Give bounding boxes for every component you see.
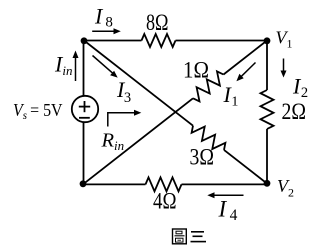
resistor R4 4-ohm: [146, 177, 182, 191]
arrow I8: [92, 28, 121, 34]
diagonal wire R3 to V2: [224, 150, 267, 184]
arrow Iin: [73, 51, 79, 82]
svg-text:4Ω: 4Ω: [153, 189, 177, 214]
svg-text:I3: I3: [116, 77, 131, 106]
node bottom-left junction: [80, 180, 87, 187]
svg-text:1Ω: 1Ω: [183, 58, 209, 83]
arrow I2: [281, 59, 287, 78]
wire bottom-left segment: [83, 183, 146, 185]
arrow Rin looking-in: [108, 110, 142, 127]
wire top-left segment: [84, 40, 142, 42]
svg-text:I2: I2: [292, 74, 308, 102]
arrow I4: [207, 192, 243, 198]
arrow I1: [236, 63, 255, 82]
wire left upper segment: [83, 41, 85, 96]
resistor R3 3-ohm: [192, 126, 226, 150]
svg-text:Vs = 5V: Vs = 5V: [13, 100, 63, 122]
svg-text:8Ω: 8Ω: [146, 10, 169, 35]
node V1 junction: [264, 37, 271, 44]
resistor R1 1-ohm: [193, 71, 224, 101]
svg-text:I1: I1: [223, 82, 239, 110]
wire right lower segment: [266, 129, 268, 184]
wire left lower segment: [83, 122, 85, 184]
svg-text:V2: V2: [277, 176, 294, 200]
diagonal wire lower-left to R1: [83, 98, 193, 184]
diagonal wire R1 to V1: [224, 41, 268, 75]
node V2 junction: [264, 180, 271, 187]
voltage source plus sign: [79, 101, 90, 112]
voltage source minus sign: [79, 117, 90, 119]
svg-text:Iin: Iin: [54, 52, 72, 79]
svg-text:I8: I8: [94, 4, 113, 31]
svg-text:2Ω: 2Ω: [282, 99, 307, 124]
wire top-right segment: [176, 40, 268, 42]
caption figure-three glyph three: [191, 232, 207, 242]
wire bottom-right segment: [182, 183, 268, 185]
svg-text:3Ω: 3Ω: [190, 145, 215, 170]
svg-text:Rin: Rin: [101, 130, 125, 154]
node top-left junction: [81, 37, 88, 44]
resistor R8 8-ohm: [142, 34, 176, 47]
diagonal wire top-left to R3: [84, 41, 193, 126]
svg-text:V1: V1: [276, 28, 293, 51]
voltage source Vs circle: [72, 96, 98, 122]
arrow I3: [93, 56, 118, 78]
caption figure-three glyph tu: [173, 229, 187, 244]
resistor R2 2-ohm: [261, 90, 274, 129]
svg-text:I4: I4: [218, 197, 238, 225]
wire right upper segment: [266, 41, 268, 91]
